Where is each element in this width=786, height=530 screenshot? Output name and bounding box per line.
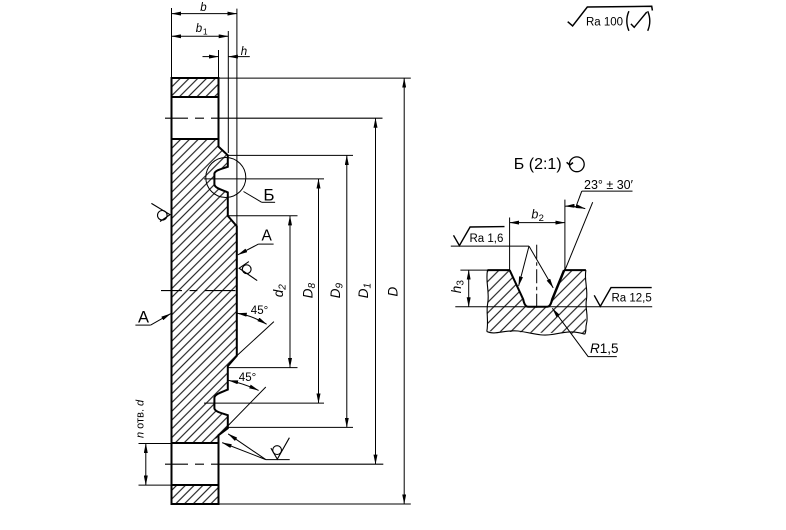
svg-text:R1,5: R1,5 [590,341,619,356]
svg-text:b: b [196,23,203,35]
svg-text:Ra 100: Ra 100 [586,17,623,29]
svg-text:23° ± 30′: 23° ± 30′ [584,178,634,192]
svg-text:Б: Б [263,185,274,204]
svg-text:45°: 45° [239,372,256,384]
svg-text:А: А [262,228,273,245]
svg-text:n отв. d: n отв. d [135,399,147,438]
svg-text:D: D [386,287,401,297]
svg-text:b: b [200,2,207,14]
svg-text:1: 1 [203,26,208,36]
svg-text:Ra 1,6: Ra 1,6 [470,233,504,245]
svg-text:45°: 45° [251,305,268,317]
svg-text:2: 2 [539,213,544,224]
svg-text:h: h [241,46,247,58]
svg-text:b: b [531,208,538,222]
svg-text:Б (2:1): Б (2:1) [514,156,562,173]
svg-text:А: А [138,309,149,327]
svg-text:Ra 12,5: Ra 12,5 [612,292,652,304]
